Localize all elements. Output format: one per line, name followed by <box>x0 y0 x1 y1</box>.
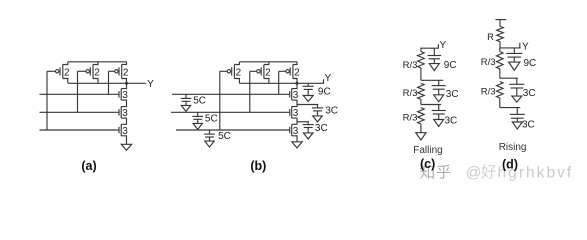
power supply terminal (d) <box>495 19 506 21</box>
transistor P2b gate <box>260 67 262 75</box>
svg-text:2: 2 <box>123 68 129 79</box>
wire output Y (a) <box>127 82 146 84</box>
svg-text:2: 2 <box>265 68 271 79</box>
ground 9C (d) <box>513 57 515 62</box>
transistor P1a source lead <box>63 62 68 65</box>
transistor N2b channel <box>291 107 293 119</box>
svg-text:3C: 3C <box>315 123 328 134</box>
wire node n2 (c) <box>421 79 443 81</box>
transistor N3b gate <box>289 127 291 134</box>
wire N1a-N2a link <box>121 100 126 107</box>
transistor N1b gate <box>289 91 291 98</box>
capacitor 9C (d) <box>506 52 522 54</box>
transistor P3a source lead <box>122 62 127 65</box>
svg-text:Y: Y <box>439 40 446 51</box>
resistor R/3 second (d) <box>497 82 504 99</box>
svg-text:(a): (a) <box>81 159 96 173</box>
transistor P1a gate wire <box>47 70 55 72</box>
wire VDD rail (b) <box>239 61 297 63</box>
node input B (a) <box>40 111 120 113</box>
svg-text:3: 3 <box>293 90 299 101</box>
transistor P1b channel <box>233 65 235 79</box>
transistor P3b channel <box>292 65 294 79</box>
transistor P2a gate wire <box>78 70 86 72</box>
svg-text:2: 2 <box>294 68 300 79</box>
svg-text:3: 3 <box>122 108 128 119</box>
svg-text:(b): (b) <box>250 159 266 173</box>
transistor P2b gate wire <box>250 70 257 72</box>
wire R-Y (d) <box>499 42 501 48</box>
transistor P3b gate wire <box>279 70 286 72</box>
wire node Y top (c) <box>421 44 439 51</box>
ground 3C n3 (d) <box>516 118 518 122</box>
wire R2-n3 (c) <box>420 99 422 104</box>
N1b drain lead <box>292 83 297 88</box>
resistor R/3 second (c) <box>418 83 425 99</box>
svg-text:5C: 5C <box>193 95 206 106</box>
ground 9C (c) <box>433 59 435 64</box>
wire node n3 (b) <box>297 121 309 123</box>
capacitor 9C (c) <box>428 55 442 57</box>
transistor N3b channel <box>291 124 293 136</box>
wire node n2 (b) <box>297 104 318 106</box>
svg-text:Y: Y <box>324 73 331 84</box>
svg-text:3: 3 <box>122 90 128 101</box>
svg-text:9C: 9C <box>524 58 537 69</box>
wire riser to P2b gate <box>249 71 251 112</box>
ground (c) <box>416 133 426 140</box>
transistor N3a gate <box>118 127 120 134</box>
wire node n3 (d) <box>500 107 521 109</box>
capacitor 3C n2 stub <box>317 105 319 108</box>
capacitor 3C n2 stub (d) <box>516 78 518 84</box>
transistor N1a gate <box>118 91 120 98</box>
svg-text:R: R <box>487 32 494 43</box>
capacitor 9C (b) <box>303 85 314 87</box>
ground 3C n2 (d) <box>516 88 518 96</box>
wire R1-n2 (d) <box>499 48 501 52</box>
transistor P3b drain lead <box>293 79 297 84</box>
svg-text:5C: 5C <box>218 131 231 142</box>
svg-text:3C: 3C <box>522 120 535 131</box>
svg-text:9C: 9C <box>318 87 331 98</box>
node input C (b) <box>176 129 290 131</box>
N3b source lead <box>292 136 297 142</box>
transistor P3a drain lead <box>122 79 127 84</box>
transistor N2a channel <box>120 107 122 119</box>
svg-text:2: 2 <box>94 68 100 79</box>
transistor P3a channel <box>121 65 123 79</box>
wire node Y (d) <box>500 43 521 48</box>
transistor P1b drain lead <box>234 79 239 84</box>
svg-text:3C: 3C <box>523 88 536 99</box>
ground (a) <box>121 144 131 150</box>
svg-text:R/3: R/3 <box>403 88 418 99</box>
wire node n2 (d) <box>500 77 518 79</box>
capacitor 3C n3 stub (d) <box>516 108 518 115</box>
transistor N2a gate <box>118 109 120 116</box>
ground (b) <box>292 142 302 148</box>
node Y junction dot (b) <box>295 82 298 85</box>
svg-text:9C: 9C <box>444 60 457 71</box>
capacitor 3C n2 <box>312 107 323 109</box>
capacitor 3C n3 <box>303 124 314 126</box>
capacitor 5C input C <box>204 133 215 135</box>
svg-text:R/3: R/3 <box>481 57 496 68</box>
svg-text:@: @ <box>466 165 482 182</box>
transistor P1b bubble <box>227 70 230 73</box>
capacitor 5C input C stub <box>209 130 211 134</box>
resistor R/3 first (c) <box>418 52 425 69</box>
capacitor 3C n3 stub <box>307 122 309 125</box>
svg-text:3C: 3C <box>325 106 338 117</box>
wire N2b-N3b link n2 <box>292 118 297 124</box>
wire riser to P3a gate <box>108 71 110 94</box>
capacitor 5C input A <box>181 97 192 99</box>
transistor P1a drain lead <box>63 79 68 84</box>
transistor P2a bubble <box>86 70 89 73</box>
svg-text:2: 2 <box>236 68 242 79</box>
wire output rail (b) <box>239 82 297 84</box>
transistor P3b source lead <box>293 62 297 65</box>
transistor P3a bubble <box>115 70 118 73</box>
transistor P2a source lead <box>93 62 98 65</box>
svg-text:Rising: Rising <box>499 142 527 153</box>
wire R2-n3 (d) <box>499 98 501 108</box>
svg-text:R/3: R/3 <box>481 86 496 97</box>
capacitor 5C input B stub <box>197 112 199 116</box>
capacitor 9C stub (b) <box>307 83 309 86</box>
svg-text:3: 3 <box>293 108 299 119</box>
ground 3C n3 <box>307 128 309 133</box>
ground 5C input B <box>197 119 199 123</box>
wire output Y (b) <box>297 79 324 83</box>
svg-text:Falling: Falling <box>413 145 442 156</box>
ground 5C input A <box>185 101 187 105</box>
watermark zhihu logo text <box>420 165 434 179</box>
svg-text:Y: Y <box>522 42 529 53</box>
transistor P2b channel <box>263 65 265 79</box>
transistor N1b channel <box>291 89 293 101</box>
ground 9C (b) <box>307 89 309 95</box>
node input C (a) <box>40 129 120 131</box>
svg-text:2: 2 <box>64 68 70 79</box>
capacitor 9C stub (c) <box>433 48 435 55</box>
svg-text:(c): (c) <box>420 157 435 171</box>
transistor P1b gate <box>231 67 233 75</box>
node Y junction dot (a) <box>125 82 128 85</box>
wire riser to P2a gate <box>77 71 79 112</box>
transistor N2b gate <box>289 109 291 116</box>
wire riser to P3b gate <box>278 71 280 94</box>
capacitor 3C n2 (c) <box>432 85 446 87</box>
capacitor 9C stub (d) <box>513 48 515 54</box>
transistor P2a channel <box>92 65 94 79</box>
capacitor 5C input A stub <box>185 94 187 98</box>
transistor P3b gate <box>289 67 291 75</box>
wire N1b-N2b link n1 <box>292 100 297 107</box>
node input A (a) <box>40 93 120 95</box>
watermark zhihu logo text 2 <box>437 165 451 179</box>
transistor P3b bubble <box>286 70 289 73</box>
transistor P3a gate wire <box>109 70 115 72</box>
wire N2a-N3a link <box>121 118 126 124</box>
transistor P2b bubble <box>257 70 260 73</box>
transistor P1b gate wire <box>220 70 227 72</box>
ground 5C input C <box>209 137 211 141</box>
wire R1-n2 (c) <box>420 68 422 80</box>
transistor N1a channel <box>120 89 122 101</box>
transistor P1a bubble <box>56 70 59 73</box>
transistor N3a channel <box>120 124 122 136</box>
ground 3C n2 (c) <box>438 89 440 95</box>
svg-text:3: 3 <box>122 126 128 137</box>
svg-text:3C: 3C <box>446 89 459 100</box>
transistor P2b drain lead <box>264 79 269 84</box>
capacitor 5C input B <box>192 115 203 117</box>
ground 3C n2 <box>317 111 319 116</box>
ground 3C n3 (c) <box>438 114 440 120</box>
svg-text:R/3: R/3 <box>403 113 418 124</box>
capacitor 3C n2 (d) <box>509 83 524 85</box>
watermark username hao glyph <box>482 165 496 179</box>
wire VDD rail (a) <box>68 61 127 63</box>
N1a drain lead <box>121 83 126 88</box>
capacitor 3C n3 stub (c) <box>438 105 440 111</box>
svg-text:3C: 3C <box>445 116 458 127</box>
wire riser to P1a gate <box>46 71 48 130</box>
node input A (b) <box>172 93 290 95</box>
capacitor 3C n3 (c) <box>432 110 446 112</box>
svg-text:Y: Y <box>147 79 154 90</box>
capacitor 3C n3 (d) <box>510 113 525 115</box>
svg-text:5C: 5C <box>205 113 218 124</box>
resistor R/3 first (d) <box>497 52 504 69</box>
transistor P2a drain lead <box>93 79 98 84</box>
wire riser to P1b gate <box>219 71 221 130</box>
transistor P1a channel <box>62 65 64 79</box>
wire node n3 (c) <box>421 104 441 106</box>
N3a source lead <box>121 136 126 145</box>
svg-text:R/3: R/3 <box>403 60 418 71</box>
transistor P2a gate <box>89 67 91 75</box>
transistor P2b source lead <box>264 62 269 65</box>
svg-text:3: 3 <box>293 126 299 137</box>
transistor P1a gate <box>59 67 61 75</box>
transistor P3a gate <box>118 67 120 75</box>
svg-text:(d): (d) <box>502 158 518 172</box>
transistor P1b source lead <box>234 62 239 65</box>
node input B (b) <box>171 111 290 113</box>
wire R3-ground (c) <box>420 124 422 133</box>
capacitor 3C n2 stub (c) <box>438 80 440 85</box>
wire output rail (a) <box>68 82 127 84</box>
resistor R (d) <box>497 26 504 41</box>
resistor R/3 third (c) <box>418 108 425 124</box>
